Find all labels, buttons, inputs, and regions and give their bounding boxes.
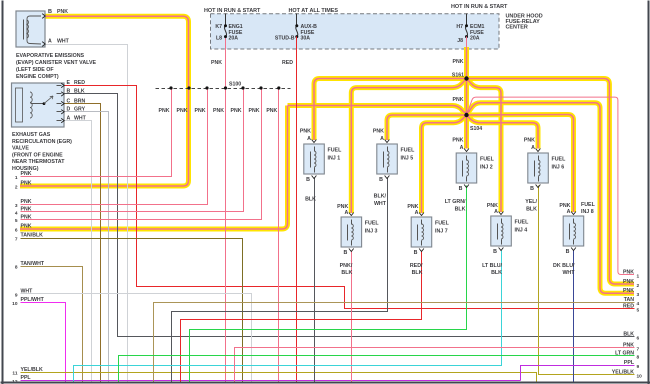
svg-text:PNK: PNK — [57, 9, 68, 15]
svg-text:INJ 7: INJ 7 — [435, 229, 448, 235]
svg-text:11: 11 — [12, 371, 17, 377]
svg-text:B: B — [566, 249, 570, 255]
svg-text:30A: 30A — [301, 36, 311, 42]
svg-text:B: B — [379, 177, 383, 183]
svg-text:S104: S104 — [470, 126, 482, 132]
svg-text:K7: K7 — [215, 24, 222, 30]
svg-text:(FRONT OF ENGINE: (FRONT OF ENGINE — [12, 152, 63, 158]
svg-text:PPL/WHT: PPL/WHT — [21, 297, 45, 303]
svg-text:STUD-B: STUD-B — [275, 36, 295, 42]
svg-text:PNK: PNK — [453, 97, 464, 103]
svg-text:PPL: PPL — [624, 360, 635, 366]
svg-text:20A: 20A — [470, 36, 480, 42]
svg-text:10: 10 — [12, 301, 18, 307]
svg-text:A: A — [531, 145, 535, 151]
svg-text:4: 4 — [15, 210, 18, 216]
svg-text:3: 3 — [15, 203, 18, 209]
svg-text:J8: J8 — [457, 38, 463, 44]
svg-text:INJ 5: INJ 5 — [401, 156, 414, 162]
svg-text:D: D — [67, 107, 71, 113]
svg-text:PNK: PNK — [213, 108, 224, 114]
svg-text:GRY: GRY — [74, 107, 86, 113]
svg-text:A: A — [567, 209, 571, 215]
svg-text:PNK: PNK — [524, 138, 535, 144]
svg-text:DK BLU/: DK BLU/ — [553, 263, 575, 269]
svg-text:YEL/BLK: YEL/BLK — [612, 369, 634, 375]
svg-text:8: 8 — [15, 265, 18, 271]
svg-text:PNK: PNK — [266, 108, 277, 114]
svg-text:FUEL: FUEL — [365, 221, 380, 227]
svg-text:INJ 4: INJ 4 — [515, 228, 528, 234]
svg-text:INJ 3: INJ 3 — [365, 229, 378, 235]
svg-text:BLK: BLK — [526, 207, 537, 213]
svg-text:BLK: BLK — [623, 332, 634, 338]
svg-text:S161: S161 — [452, 73, 464, 79]
svg-text:PNK: PNK — [623, 269, 634, 275]
svg-text:B: B — [343, 250, 347, 256]
svg-text:E: E — [67, 80, 71, 86]
svg-text:(EVAP) CANISTER VENT VALVE: (EVAP) CANISTER VENT VALVE — [16, 60, 97, 66]
svg-text:PNK: PNK — [21, 207, 32, 213]
svg-text:7: 7 — [637, 347, 640, 353]
svg-text:9: 9 — [15, 292, 18, 298]
svg-text:WHT: WHT — [562, 270, 575, 276]
svg-text:B: B — [67, 89, 71, 95]
svg-text:HOT IN RUN & START: HOT IN RUN & START — [451, 4, 508, 10]
svg-text:CENTER: CENTER — [506, 25, 528, 31]
svg-text:PNK: PNK — [453, 59, 464, 65]
svg-text:BLK: BLK — [412, 270, 423, 276]
svg-text:LT GRN: LT GRN — [615, 351, 634, 357]
svg-text:EXHAUST GAS: EXHAUST GAS — [12, 132, 51, 138]
svg-text:FUEL: FUEL — [552, 157, 567, 163]
svg-text:A: A — [460, 145, 464, 151]
svg-text:RED: RED — [623, 303, 634, 309]
svg-text:FUEL: FUEL — [581, 202, 596, 208]
svg-text:FUEL: FUEL — [328, 148, 343, 154]
svg-text:5: 5 — [637, 307, 640, 313]
svg-text:7: 7 — [15, 237, 18, 243]
svg-text:B: B — [48, 9, 52, 15]
svg-text:PNK: PNK — [177, 108, 188, 114]
svg-text:H7: H7 — [456, 24, 463, 30]
svg-text:INJ 8: INJ 8 — [581, 209, 594, 215]
svg-text:BLK: BLK — [305, 197, 316, 203]
svg-text:FUEL: FUEL — [515, 220, 530, 226]
svg-text:WHT: WHT — [374, 201, 387, 207]
svg-text:TAN/BLK: TAN/BLK — [21, 233, 44, 239]
svg-text:PNK: PNK — [249, 108, 260, 114]
svg-text:A: A — [380, 136, 384, 142]
svg-text:L8: L8 — [216, 36, 222, 42]
svg-text:VALVE: VALVE — [12, 146, 29, 152]
svg-text:PNK: PNK — [623, 343, 634, 349]
svg-text:5: 5 — [15, 218, 18, 224]
svg-text:B: B — [530, 186, 534, 192]
svg-text:A: A — [344, 210, 348, 216]
svg-text:FUEL: FUEL — [480, 157, 495, 163]
svg-text:20A: 20A — [229, 36, 239, 42]
svg-text:6: 6 — [15, 228, 18, 234]
svg-text:RED: RED — [282, 60, 293, 66]
svg-text:A: A — [307, 136, 311, 142]
svg-text:PNK: PNK — [623, 279, 634, 285]
svg-text:A: A — [415, 210, 419, 216]
svg-text:HOT IN RUN & START: HOT IN RUN & START — [204, 8, 261, 14]
svg-text:PNK: PNK — [211, 60, 222, 66]
svg-text:WHT: WHT — [57, 38, 70, 44]
svg-text:BRN: BRN — [74, 98, 85, 104]
svg-text:PNK: PNK — [159, 108, 170, 114]
svg-text:9: 9 — [637, 364, 640, 370]
svg-text:LT BLU/: LT BLU/ — [482, 263, 502, 269]
svg-text:INJ 1: INJ 1 — [328, 156, 341, 162]
svg-text:3: 3 — [637, 292, 640, 298]
svg-text:PNK: PNK — [21, 224, 32, 230]
svg-text:A: A — [494, 209, 498, 215]
svg-text:PNK: PNK — [231, 108, 242, 114]
svg-text:A: A — [67, 115, 71, 121]
svg-text:6: 6 — [637, 336, 640, 342]
svg-text:PNK: PNK — [452, 138, 463, 144]
svg-text:RED: RED — [74, 80, 85, 86]
svg-text:A: A — [48, 38, 52, 44]
svg-text:1: 1 — [15, 175, 18, 181]
svg-text:YEL/BLK: YEL/BLK — [21, 367, 43, 373]
svg-text:RED/: RED/ — [410, 263, 423, 269]
svg-text:INJ 2: INJ 2 — [480, 165, 493, 171]
svg-text:PPL: PPL — [21, 375, 32, 381]
svg-text:WHT: WHT — [74, 115, 87, 121]
svg-text:HOT AT ALL TIMES: HOT AT ALL TIMES — [289, 8, 339, 14]
svg-text:PNK: PNK — [373, 129, 384, 135]
svg-text:8: 8 — [637, 355, 640, 361]
svg-text:10: 10 — [637, 373, 643, 379]
svg-text:B: B — [493, 249, 497, 255]
svg-text:FUEL: FUEL — [401, 148, 416, 154]
svg-text:YEL/: YEL/ — [525, 199, 537, 205]
svg-text:1: 1 — [637, 273, 640, 279]
svg-text:2: 2 — [15, 185, 18, 191]
svg-text:C: C — [67, 98, 71, 104]
svg-text:TAN/WHT: TAN/WHT — [21, 261, 45, 267]
svg-text:EVAPORATIVE EMISSIONS: EVAPORATIVE EMISSIONS — [16, 53, 85, 59]
svg-text:PNK: PNK — [21, 171, 32, 177]
svg-text:PNK: PNK — [21, 181, 32, 187]
svg-text:B: B — [459, 186, 463, 192]
svg-text:B: B — [414, 250, 418, 256]
svg-text:B: B — [306, 177, 310, 183]
svg-text:PNK: PNK — [623, 288, 634, 294]
svg-text:WHT: WHT — [21, 289, 34, 295]
svg-text:RECIRCULATION (EGR): RECIRCULATION (EGR) — [12, 139, 72, 145]
svg-text:PNK/: PNK/ — [340, 263, 353, 269]
svg-text:BLK: BLK — [341, 270, 352, 276]
svg-text:S100: S100 — [229, 82, 241, 88]
svg-text:FUEL: FUEL — [435, 221, 450, 227]
svg-text:PNK: PNK — [195, 108, 206, 114]
svg-text:BLK: BLK — [74, 89, 85, 95]
svg-text:NEAR THERMOSTAT: NEAR THERMOSTAT — [12, 159, 65, 165]
svg-text:2: 2 — [637, 283, 640, 289]
svg-text:TAN: TAN — [624, 297, 635, 303]
svg-text:BLK: BLK — [455, 207, 466, 213]
svg-text:PNK: PNK — [21, 199, 32, 205]
svg-text:(LEFT SIDE OF: (LEFT SIDE OF — [16, 67, 54, 73]
svg-text:ENGINE COMPT): ENGINE COMPT) — [16, 74, 59, 80]
svg-text:LT GRN/: LT GRN/ — [445, 199, 466, 205]
svg-text:BLK/: BLK/ — [374, 194, 387, 200]
svg-text:BLK: BLK — [491, 270, 502, 276]
svg-text:INJ 6: INJ 6 — [552, 165, 565, 171]
svg-text:PNK: PNK — [300, 129, 311, 135]
svg-text:PNK: PNK — [21, 214, 32, 220]
svg-text:4: 4 — [637, 301, 640, 307]
